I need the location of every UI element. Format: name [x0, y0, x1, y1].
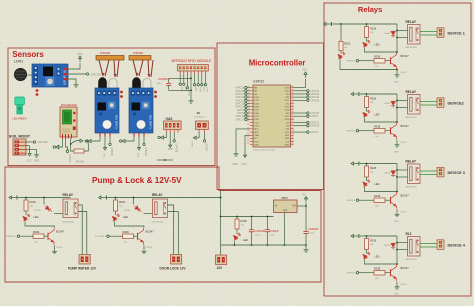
op ESP32 chip body U1 — [253, 85, 291, 147]
wire RFID pin 3 — [186, 74, 188, 87]
GAS connector — [164, 121, 182, 130]
resistor R336 relay circuit 2 — [374, 129, 385, 134]
svg-text:13: 13 — [247, 124, 249, 126]
terminal ESP32 right GPIO5 — [307, 115, 309, 117]
svg-text:GPIO34: GPIO34 — [68, 154, 71, 163]
svg-text:GND: GND — [394, 152, 399, 154]
wire LED to collector node pump 1 — [25, 222, 55, 228]
svg-text:17: 17 — [247, 137, 249, 139]
terminal ESP32 left pin 7 — [245, 105, 247, 107]
svg-text:VCC: VCC — [103, 153, 105, 158]
wire ESP32 right pin 29 — [294, 115, 307, 117]
terminal LDR signal — [86, 73, 88, 75]
svg-text:GND: GND — [254, 145, 259, 147]
svg-text:19: 19 — [247, 143, 249, 145]
terminal ESP32 left pin 8 — [245, 109, 247, 111]
svg-text:GPIO4: GPIO4 — [311, 131, 319, 134]
wire coil column relay circuit 2 — [396, 94, 398, 122]
LED relay circuit 2 — [363, 110, 370, 117]
ground relay circuit 1 — [395, 73, 400, 77]
wire stub near box bottom — [157, 159, 173, 161]
IR LED pair wires module 2 — [133, 60, 153, 77]
svg-text:IN1FW D: IN1FW D — [347, 61, 356, 63]
svg-text:ESP32: ESP32 — [254, 80, 265, 84]
wire LDR module signal — [68, 73, 86, 75]
photodiode clear dome module 1 — [109, 78, 117, 89]
wire relay to device circuit 1 — [420, 31, 437, 33]
svg-text:RELAY: RELAY — [63, 193, 74, 197]
svg-text:GND: GND — [283, 210, 288, 212]
svg-text:5V: 5V — [303, 194, 306, 197]
svg-text:BC547: BC547 — [401, 194, 410, 198]
wire top rail pump circuit 2 — [108, 197, 161, 199]
wire ESP32 right pin 31 — [294, 122, 307, 124]
svg-text:OMI-SH-205D: OMI-SH-205D — [405, 259, 418, 261]
svg-text:GPIO5: GPIO5 — [311, 115, 319, 118]
terminal RFID pin 7 — [201, 84, 203, 86]
pump-lock-12v section box — [5, 167, 321, 282]
svg-text:CLK: CLK — [285, 141, 290, 143]
transistor BC547 pump 1 — [48, 228, 54, 245]
wire module 2 pin2 — [138, 137, 140, 145]
svg-text:GND: GND — [233, 163, 239, 166]
svg-text:12: 12 — [247, 121, 249, 123]
wire ESP32 right pin 24 — [294, 99, 307, 101]
wire water pin3 with junction — [70, 139, 72, 145]
svg-text:EN: EN — [254, 87, 257, 89]
wire top rail relay circuit 3 — [360, 163, 397, 165]
terminal ESP32 right GPIO19 — [307, 96, 309, 98]
transistor BC547 relay circuit 2 — [391, 122, 397, 139]
wire emitter to ground circuit 1 — [396, 70, 398, 73]
svg-text:RELAY: RELAY — [406, 20, 417, 24]
svg-text:BC547: BC547 — [56, 230, 65, 234]
wire RFID pin 4 — [190, 74, 192, 99]
wire terminal to R336 pump 2 — [110, 235, 123, 237]
svg-text:R336: R336 — [123, 230, 130, 234]
input terminal relay circuit 1 — [356, 60, 358, 62]
input terminal pump 1 — [17, 235, 19, 237]
wire coil stubs relay circuit 1 — [397, 30, 408, 32]
transistor BC547 relay circuit 1 — [391, 52, 397, 69]
svg-text:CONN-SIL2: CONN-SIL2 — [194, 116, 206, 118]
IR LED black dome module 2 — [133, 78, 141, 89]
wire ESP32 left pin 11 — [247, 118, 250, 120]
LED pump circuit 2 — [113, 214, 120, 221]
wire LDR module VCC — [68, 63, 80, 69]
svg-text:MOSI: MOSI — [188, 90, 190, 96]
wire ESP32 left pin 2 — [247, 90, 250, 92]
terminal GAS arrow — [161, 136, 164, 139]
svg-text:LED: LED — [375, 255, 380, 259]
LED relay circuit 4 — [363, 252, 370, 259]
svg-text:C1000UF: C1000UF — [158, 77, 170, 81]
svg-text:IN2FW D: IN2FW D — [347, 131, 356, 133]
wire RFID pin 5 — [194, 74, 196, 84]
node water mid — [66, 150, 69, 153]
resistor pack RN2 — [129, 56, 151, 61]
svg-text:IRQ: IRQ — [195, 87, 197, 91]
wire RFID pin 8 — [204, 74, 206, 84]
wire LED to node relay circuit 3 — [365, 187, 398, 192]
svg-text:28: 28 — [291, 118, 293, 120]
wire 12V horizontal rail — [221, 216, 274, 218]
wire ESP32 left pin 1 — [247, 87, 250, 89]
svg-text:GND: GND — [394, 294, 399, 296]
wire GAS pin1 — [163, 133, 166, 138]
resistor R336 pump 1 — [33, 234, 44, 239]
svg-text:BC547: BC547 — [401, 284, 408, 286]
terminal ESP32 left pin 4 — [245, 96, 247, 98]
terminal ESP32 left pin 9 — [245, 112, 247, 114]
svg-text:LED: LED — [375, 113, 380, 117]
flyback diode relay circuit 3 — [391, 170, 396, 177]
svg-text:29: 29 — [291, 115, 293, 117]
wire input to R336 circuit 2 — [359, 130, 374, 132]
wire 7805 gnd pin — [284, 213, 286, 246]
connector DEVICE2 — [437, 98, 444, 108]
wire coil column relay circuit 1 — [396, 24, 398, 52]
svg-text:LED-GREEN: LED-GREEN — [13, 118, 27, 121]
wire ESP32 right pin 22 — [294, 93, 307, 95]
wire terminal to R336 pump 1 — [20, 235, 33, 237]
VCC arrow above LDR module — [78, 56, 81, 62]
terminal water circle — [53, 146, 55, 148]
resistor R226 relay circuit 3 — [366, 164, 368, 167]
svg-text:R226: R226 — [344, 43, 351, 46]
svg-text:GND: GND — [168, 149, 173, 151]
svg-text:LED: LED — [243, 238, 248, 242]
svg-text:RELAY: RELAY — [152, 193, 163, 197]
resistor R336 relay circuit 3 — [374, 198, 385, 203]
arrow terminal water out — [80, 139, 83, 142]
terminal arrow module 1 — [88, 139, 91, 142]
terminal RFID pin 8 — [204, 84, 206, 86]
svg-text:20: 20 — [291, 143, 293, 145]
terminal arrow module 2 — [122, 139, 125, 142]
terminal ESP32 left pin 2 — [245, 90, 247, 92]
RFID connector — [178, 65, 209, 72]
microcontroller section box — [217, 43, 324, 190]
terminal ESP32 right GPIO23 — [307, 99, 309, 101]
svg-text:FLAME SEN: FLAME SEN — [116, 115, 119, 129]
regulator 7805 — [274, 200, 298, 213]
svg-text:BC547: BC547 — [401, 266, 410, 270]
transistor BC547 relay circuit 3 — [391, 192, 397, 209]
wire R336 to base circuit 4 — [385, 272, 391, 274]
ground pump circuit 2 — [142, 250, 147, 254]
svg-text:R226: R226 — [370, 239, 377, 243]
svg-text:LED: LED — [34, 215, 39, 219]
wire R226 to LED relay circuit 1 — [366, 38, 368, 42]
wire ESP32 left pin 9 — [247, 112, 250, 114]
relays section box — [324, 3, 471, 296]
ground LDR module — [74, 83, 79, 87]
flyback diode relay circuit 1 — [391, 31, 396, 38]
wire relay to device circuit 3 — [420, 170, 437, 172]
wire module 2 pin1 — [125, 137, 134, 142]
svg-text:9V6D008: 9V6D008 — [133, 52, 144, 55]
terminal ESP32 left pin 11 — [245, 118, 247, 120]
wire 7805 output — [297, 205, 306, 207]
wire ESP32 right pin 34 — [294, 131, 307, 133]
resistor pack RN1 — [96, 56, 124, 61]
svg-text:DOOR LOCK 12V: DOOR LOCK 12V — [160, 266, 187, 270]
svg-text:R106K: R106K — [76, 160, 85, 164]
svg-text:VCC: VCC — [302, 68, 308, 72]
ESP32 left pin numbers — [247, 86, 249, 145]
input terminal relay circuit 4 — [356, 272, 358, 274]
svg-text:DEVICE 4: DEVICE 4 — [448, 243, 466, 247]
svg-text:IN3FW D: IN3FW D — [347, 200, 356, 202]
wire ESP32 right pin 32 — [294, 125, 307, 127]
wire RFID pin 7 — [201, 74, 203, 84]
ground 12V section — [305, 245, 307, 248]
bottom rail relay circuit 1 — [340, 69, 397, 71]
svg-text:R336: R336 — [374, 267, 381, 271]
svg-text:LOCK: LOCK — [191, 141, 193, 147]
wire input to R336 circuit 3 — [359, 199, 374, 201]
terminal RFID pin 1 — [179, 83, 181, 85]
ground relay circuit 2 — [395, 143, 400, 147]
svg-text:18: 18 — [247, 140, 249, 142]
wire LDR module GND — [68, 79, 76, 83]
svg-text:GPIO35: GPIO35 — [110, 147, 113, 156]
svg-text:VCC: VCC — [27, 160, 32, 163]
terminal ESP32 left pin 3 — [245, 93, 247, 95]
ground relay circuit 4 — [395, 285, 400, 289]
VCC down GAS — [169, 142, 172, 148]
wire water pin2 junction — [66, 139, 68, 151]
svg-text:BC547: BC547 — [401, 54, 410, 58]
svg-text:FLAME SEN: FLAME SEN — [150, 115, 153, 129]
svg-text:DEVICE2: DEVICE2 — [448, 101, 464, 105]
wire LED to node relay circuit 1 — [365, 48, 398, 53]
terminal ESP32 right GPIO21 — [307, 90, 309, 92]
svg-text:DEVICE 3: DEVICE 3 — [448, 171, 465, 175]
svg-text:33: 33 — [291, 102, 293, 104]
wire top rail pump circuit 1 — [18, 197, 71, 199]
svg-text:24: 24 — [291, 131, 293, 133]
wire ESP32 right pin 23 — [294, 96, 307, 98]
curved wire to arrow terminal — [71, 141, 80, 144]
svg-text:BC547: BC547 — [401, 142, 408, 144]
wire coil stubs relay circuit 3 — [397, 169, 408, 171]
svg-text:LED: LED — [123, 215, 128, 219]
connector DEVICE 3 — [437, 167, 444, 177]
svg-text:D4008: D4008 — [384, 173, 391, 175]
svg-text:1000u: 1000u — [255, 234, 262, 236]
ground relay circuit 3 — [395, 213, 400, 217]
connector PUMP WATER 12V — [79, 255, 90, 265]
wire emitter to ground circuit 4 — [396, 282, 398, 285]
transistor BC547 relay circuit 4 — [391, 264, 397, 281]
svg-text:SCK: SCK — [184, 87, 186, 92]
svg-text:22: 22 — [291, 137, 293, 139]
water level sensor board — [60, 107, 77, 139]
wire 12V feed vertical — [220, 191, 222, 256]
resistor R336 pump 2 — [123, 234, 134, 239]
svg-text:GPIO17: GPIO17 — [236, 118, 245, 121]
power terminal pump circuit 2 — [99, 196, 107, 200]
terminal ESP32 right GPIO4 — [307, 131, 309, 133]
wire coil stubs relay circuit 4 — [397, 242, 408, 244]
wire LED to node relay circuit 4 — [365, 260, 398, 265]
svg-text:GND: GND — [394, 82, 399, 84]
LED pump circuit 1 — [23, 214, 30, 221]
capacitor C100UF — [265, 217, 270, 246]
ESP32 right pin stubs — [291, 88, 294, 145]
svg-text:C100UF: C100UF — [270, 230, 280, 233]
svg-text:R226: R226 — [370, 166, 377, 170]
svg-text:BC547: BC547 — [57, 247, 64, 249]
svg-text:15: 15 — [247, 131, 249, 133]
svg-text:BC547: BC547 — [146, 230, 155, 234]
svg-text:RELAY: RELAY — [406, 160, 417, 164]
svg-text:37: 37 — [291, 89, 293, 91]
svg-text:25: 25 — [291, 127, 293, 129]
svg-text:DIODE: DIODE — [35, 210, 42, 212]
svg-text:R226: R226 — [241, 219, 248, 223]
terminal soil signal — [33, 141, 35, 143]
wire ESP32 left pin 7 — [247, 106, 250, 108]
svg-text:SOIL MOIST: SOIL MOIST — [9, 135, 31, 139]
svg-text:PUMPFW D: PUMPFW D — [5, 236, 17, 238]
power terminal pump circuit 1 — [9, 196, 17, 200]
svg-text:LED: LED — [375, 43, 380, 47]
photodiode clear dome module 2 — [143, 78, 151, 89]
svg-text:R12: R12 — [406, 232, 412, 236]
svg-text:LDR1: LDR1 — [14, 60, 23, 64]
resistor R336 relay circuit 1 — [374, 59, 385, 64]
svg-text:D4008: D4008 — [384, 103, 391, 105]
svg-text:DIODE: DIODE — [124, 210, 131, 212]
svg-text:LED: LED — [375, 182, 380, 186]
svg-text:Microcontroller: Microcontroller — [249, 59, 306, 68]
transistor BC547 pump 2 — [138, 228, 144, 245]
ESP32 right pin numbers — [291, 86, 293, 145]
svg-text:GPIO2: GPIO2 — [205, 144, 208, 152]
wire coil column relay circuit 4 — [396, 236, 398, 264]
wire ESP32 left pin 10 — [247, 115, 250, 117]
ESP32 left pin stubs — [250, 88, 253, 145]
resistor R336 relay circuit 4 — [374, 271, 385, 276]
indicator dots module 1 — [120, 91, 123, 94]
LED relay circuit 1 — [363, 40, 370, 47]
svg-text:MFRC522 RFID MODULE: MFRC522 RFID MODULE — [172, 59, 212, 63]
svg-text:3.3V: 3.3V — [206, 87, 208, 92]
svg-text:100u: 100u — [157, 83, 163, 85]
resistor R226 12V indicator — [236, 217, 238, 220]
svg-text:21: 21 — [291, 140, 293, 142]
svg-text:VO: VO — [292, 205, 296, 208]
ground rail horizontal — [221, 244, 306, 246]
wire RFID pin 1 — [179, 74, 181, 83]
green LED component — [15, 97, 25, 114]
sensors section box — [8, 48, 215, 166]
wire module 2 pin3 — [143, 137, 145, 144]
svg-text:OMI-SH-205D: OMI-SH-205D — [405, 117, 418, 119]
wire relay contacts to connector pump 1 — [78, 205, 82, 255]
svg-text:OMI-SH-205D: OMI-SH-205D — [405, 47, 418, 49]
svg-text:GPIO35: GPIO35 — [174, 144, 177, 153]
svg-text:9V6D008: 9V6D008 — [100, 52, 111, 55]
terminal RFID pin 3 — [186, 87, 188, 89]
terminal ESP32 left pin 10 — [245, 115, 247, 117]
svg-text:R336: R336 — [374, 194, 381, 198]
VCC down arrow soil — [28, 150, 31, 156]
wire ESP32 left pin 5 — [247, 99, 250, 101]
IR LED pair wires module 1 — [99, 60, 119, 77]
flyback diode relay circuit 2 — [391, 101, 396, 108]
wire ESP32 left pin 3 — [247, 93, 250, 95]
svg-text:32: 32 — [291, 105, 293, 107]
flyback diode pump circuit 1 — [43, 198, 45, 205]
wire R226 to LED relay circuit 2 — [366, 108, 368, 112]
GAS pin stubs — [166, 130, 178, 133]
terminal ESP32 right GPIO17 — [307, 121, 309, 123]
wire ESP32 gnd — [236, 129, 250, 152]
LDR1 photoresistor — [14, 68, 26, 80]
wire R226 to LED relay circuit 3 — [366, 177, 368, 181]
wire soil pin3 to ground — [26, 149, 37, 153]
svg-text:GND: GND — [34, 160, 40, 163]
terminal ESP32 right GPIO22 — [307, 93, 309, 95]
connector DEVICE 1 — [437, 28, 444, 38]
connector DOOR LOCK 12V — [171, 255, 182, 265]
svg-text:R336: R336 — [33, 230, 40, 234]
VCC arrow ESP32 — [304, 72, 307, 78]
terminal ESP32 left pin 1 — [245, 86, 247, 88]
resistor R106K — [74, 149, 84, 153]
svg-text:GPIO32: GPIO32 — [38, 140, 49, 144]
wire LED to gnd rail 12V — [234, 241, 236, 246]
wire ESP32 right pin 28 — [294, 112, 307, 114]
wire J6 pin2 — [204, 133, 206, 140]
5V output arrow — [305, 203, 307, 206]
ground pump circuit 1 — [52, 250, 57, 254]
terminal ESP32 right GPIO18 — [307, 112, 309, 114]
RFID pin stubs — [180, 71, 205, 74]
svg-text:OMI-SH-205D: OMI-SH-205D — [405, 187, 418, 189]
svg-text:36: 36 — [291, 92, 293, 94]
svg-text:Relays: Relays — [358, 5, 383, 14]
wire top rail relay circuit 2 — [360, 93, 397, 95]
svg-text:VN: VN — [254, 94, 257, 96]
terminal circle module 2 — [143, 143, 145, 145]
wire module 1 pin1 — [91, 137, 100, 142]
capacitor C1000UF — [249, 217, 254, 246]
wire ESP32 top right vcc — [294, 79, 306, 88]
flame sensor board module 2 — [129, 88, 153, 137]
wire R336 to base circuit 2 — [385, 130, 391, 132]
svg-text:R336: R336 — [374, 125, 381, 129]
svg-text:27: 27 — [291, 121, 293, 123]
svg-text:GND: GND — [285, 145, 290, 147]
svg-text:OMI-SH-205D: OMI-SH-205D — [152, 222, 165, 224]
wire emitter to ground pump 2 — [143, 245, 145, 249]
svg-text:38: 38 — [291, 86, 293, 88]
J6 connector — [196, 121, 209, 130]
LED left branch — [340, 51, 342, 54]
svg-text:Pump & Lock & 12V-5V: Pump & Lock & 12V-5V — [92, 176, 182, 185]
terminal ESP32 left pin 5 — [245, 99, 247, 101]
svg-text:OMI-SH-205D: OMI-SH-205D — [62, 222, 75, 224]
wire LED to node relay circuit 2 — [365, 118, 398, 123]
svg-text:ESP32-DEVKITC-32D: ESP32-DEVKITC-32D — [254, 149, 276, 151]
svg-text:BC547: BC547 — [146, 247, 153, 249]
svg-text:30: 30 — [291, 111, 293, 113]
